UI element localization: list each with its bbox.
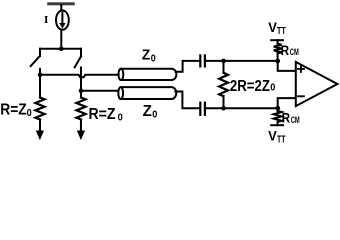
svg-text:0: 0 [118, 111, 123, 123]
svg-text:R: R [282, 110, 291, 126]
svg-text:TT: TT [277, 135, 286, 146]
svg-text:V: V [268, 129, 277, 144]
svg-text:0: 0 [151, 54, 156, 65]
svg-text:CM: CM [290, 47, 299, 58]
svg-text:R: R [281, 42, 290, 58]
svg-text:I: I [44, 14, 49, 26]
svg-text:R=Z: R=Z [0, 102, 27, 119]
svg-text:0: 0 [152, 109, 157, 121]
svg-text:R=Z: R=Z [89, 106, 116, 123]
svg-text:0: 0 [270, 82, 275, 94]
svg-text:0: 0 [27, 107, 32, 119]
svg-text:CM: CM [291, 115, 300, 126]
svg-text:V: V [268, 20, 277, 35]
svg-text:Z: Z [143, 103, 153, 120]
svg-text:TT: TT [277, 26, 286, 37]
svg-text:2R=2Z: 2R=2Z [230, 78, 270, 95]
svg-text:Z: Z [142, 48, 150, 64]
